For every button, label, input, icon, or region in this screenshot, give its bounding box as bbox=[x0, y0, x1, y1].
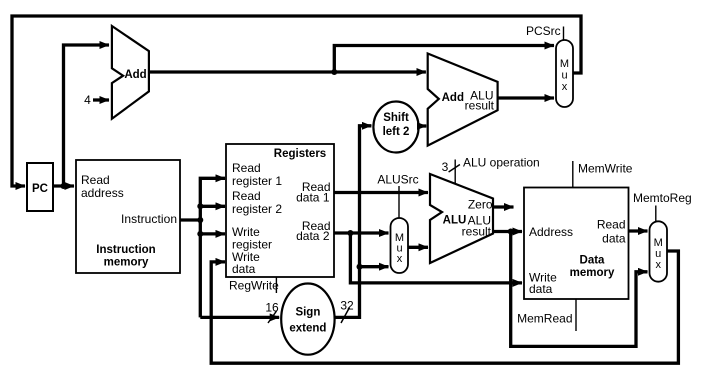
wire: PC+4 to branch Add input 1 bbox=[149, 70, 426, 73]
wire: ALUSrc control stub bbox=[398, 186, 400, 218]
mux PCSrc bbox=[556, 40, 573, 107]
wire: PCSrc control stub bbox=[563, 27, 565, 41]
svg-text:Read: Read bbox=[597, 218, 626, 232]
svg-text:extend: extend bbox=[289, 323, 326, 335]
svg-text:ALUSrc: ALUSrc bbox=[377, 173, 418, 187]
sign extend unit bbox=[281, 284, 334, 355]
registers file bbox=[226, 144, 334, 277]
svg-text:Read: Read bbox=[232, 161, 261, 175]
node: PC+4 branch bbox=[331, 69, 337, 75]
instruction memory bbox=[76, 160, 180, 273]
shift left 2 unit bbox=[373, 102, 418, 153]
svg-text:Read: Read bbox=[81, 173, 110, 187]
svg-text:MemtoReg: MemtoReg bbox=[633, 191, 692, 205]
svg-text:data 1: data 1 bbox=[296, 191, 330, 205]
data memory bbox=[524, 188, 629, 300]
svg-text:ALU operation: ALU operation bbox=[463, 156, 540, 170]
adder Add (branch target) bbox=[428, 54, 498, 146]
node: PC output branch bbox=[61, 183, 67, 189]
svg-text:PCSrc: PCSrc bbox=[526, 24, 561, 38]
svg-text:Shift: Shift bbox=[383, 112, 409, 124]
wire: read data 2 to data memory write data bbox=[350, 233, 522, 283]
mux ALUSrc bbox=[391, 218, 409, 273]
svg-text:3: 3 bbox=[442, 160, 449, 174]
svg-text:left 2: left 2 bbox=[383, 126, 410, 138]
wire: PC to instruction memory read address bbox=[53, 184, 74, 187]
svg-text:32: 32 bbox=[340, 299, 354, 313]
svg-text:data 2: data 2 bbox=[296, 229, 330, 243]
label: width 3 slash bbox=[449, 165, 460, 173]
wire: bus tap to read register 2 bbox=[200, 205, 225, 208]
adder Add (PC+4) bbox=[112, 26, 149, 119]
svg-text:data: data bbox=[529, 282, 553, 296]
svg-text:MemWrite: MemWrite bbox=[578, 162, 633, 176]
ALU main bbox=[430, 174, 493, 263]
wire: PCSrc mux output feedback to PC (top/left frame) bbox=[12, 16, 581, 186]
node: ALU result branch bbox=[508, 229, 514, 235]
svg-text:Registers: Registers bbox=[274, 148, 326, 160]
svg-text:memory: memory bbox=[104, 257, 149, 269]
svg-text:Add: Add bbox=[124, 69, 146, 81]
svg-text:x: x bbox=[562, 81, 568, 93]
PC register bbox=[27, 163, 53, 211]
node: bus tap write register bbox=[197, 231, 203, 237]
wire: sign extend output up to shift left 2 bbox=[335, 126, 372, 318]
svg-text:Instruction: Instruction bbox=[96, 244, 155, 256]
svg-text:data: data bbox=[232, 262, 256, 276]
svg-text:Add: Add bbox=[442, 92, 464, 104]
svg-text:x: x bbox=[397, 253, 403, 265]
svg-text:4: 4 bbox=[84, 93, 91, 107]
node: sign extend branch bbox=[357, 264, 363, 270]
wire: bus to sign extend input bbox=[200, 316, 279, 319]
mux MemtoReg bbox=[650, 221, 668, 281]
svg-text:address: address bbox=[81, 186, 124, 200]
wire: sign extend branch to ALUSrc mux input 1 bbox=[360, 265, 389, 268]
node: bus tap read register 2 bbox=[197, 203, 203, 209]
svg-text:Read: Read bbox=[232, 189, 261, 203]
node: read data 2 branch bbox=[347, 230, 353, 236]
svg-text:data: data bbox=[602, 232, 626, 246]
wire: data memory read data to MemtoReg mux input 1 bbox=[629, 229, 648, 232]
wire: PC+4 to PCSrc mux input 0 bbox=[334, 46, 554, 73]
svg-text:Zero: Zero bbox=[468, 198, 493, 212]
wire: constant 4 to Add input 2 bbox=[93, 98, 109, 101]
svg-text:16: 16 bbox=[265, 301, 279, 315]
node: instruction joins bus bbox=[197, 217, 203, 223]
wire: ALU operation stub bbox=[454, 160, 456, 184]
wire: instruction output to bus bbox=[180, 218, 200, 221]
wire: MemtoReg control stub bbox=[655, 206, 657, 222]
wire: PC to Add (PC+4) input 1 bbox=[64, 45, 110, 186]
svg-text:MemRead: MemRead bbox=[517, 312, 572, 326]
svg-text:memory: memory bbox=[570, 267, 615, 279]
wire: MemtoReg mux output feedback to registers write data bbox=[211, 251, 678, 363]
wire: ALU result to data memory address bbox=[493, 230, 522, 233]
label: bus width 32 slash bbox=[341, 308, 350, 324]
svg-text:register 1: register 1 bbox=[232, 174, 282, 188]
svg-text:register 2: register 2 bbox=[232, 202, 282, 216]
svg-text:result: result bbox=[462, 225, 492, 239]
svg-text:u: u bbox=[561, 70, 567, 82]
wire: Zero output bbox=[493, 205, 514, 208]
wire: branch target to PCSrc mux input 1 bbox=[498, 96, 554, 99]
wire: ALU result to MemtoReg mux input 0 bbox=[511, 232, 648, 347]
wire: shift left 2 to branch Add input 2 bbox=[419, 124, 427, 127]
wire: MemWrite stub bbox=[572, 161, 574, 188]
svg-text:Instruction: Instruction bbox=[121, 212, 177, 226]
wire: read data 2 to ALUSrc mux input 0 bbox=[334, 231, 389, 234]
wire: ALUSrc mux output to ALU input 2 bbox=[408, 246, 428, 249]
svg-text:result: result bbox=[465, 99, 495, 113]
svg-text:PC: PC bbox=[32, 183, 48, 195]
wire: RegWrite stub bbox=[275, 277, 277, 293]
svg-text:x: x bbox=[655, 259, 661, 271]
wire: read data 1 to ALU input 1 bbox=[334, 191, 428, 194]
svg-text:Sign: Sign bbox=[295, 307, 320, 319]
svg-text:Address: Address bbox=[529, 225, 573, 239]
wire: instruction bus vertical with top tap to read register 1 bbox=[200, 178, 225, 317]
wire: MemRead stub bbox=[575, 299, 577, 331]
svg-text:Data: Data bbox=[580, 255, 606, 267]
svg-text:RegWrite: RegWrite bbox=[229, 279, 279, 293]
wire: bus tap to write register bbox=[200, 232, 225, 235]
label: bus width 16 slash bbox=[268, 311, 277, 323]
svg-text:M: M bbox=[560, 58, 569, 70]
